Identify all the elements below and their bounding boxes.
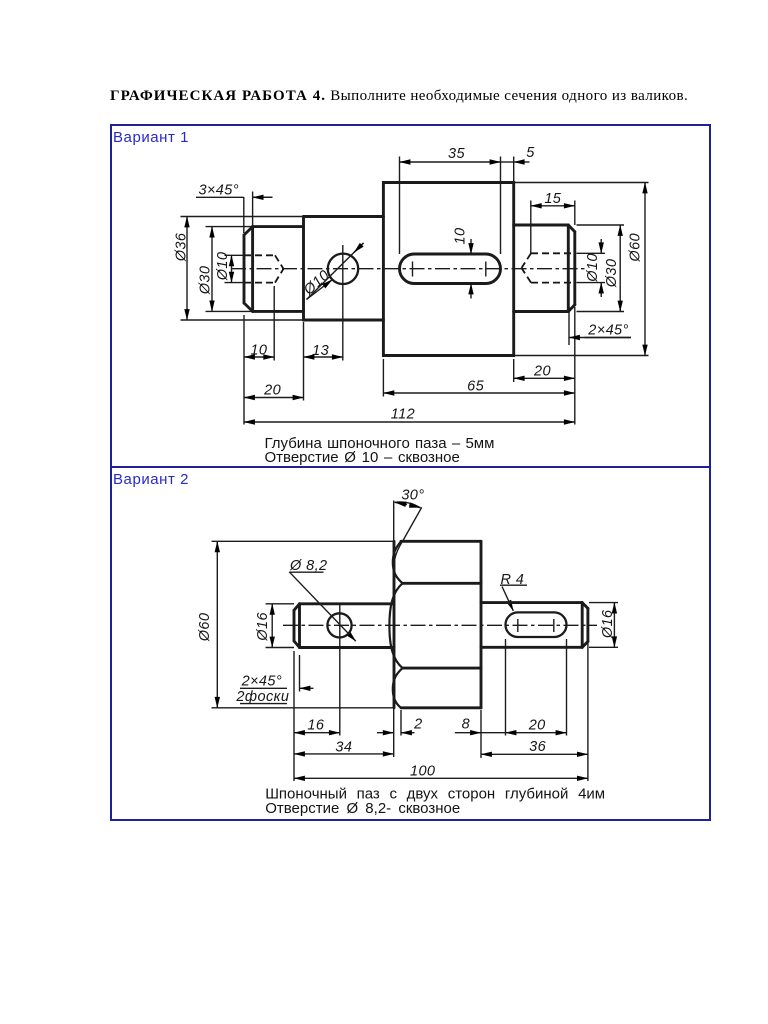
svg-text:Ø10: Ø10: [585, 253, 601, 283]
svg-text:100: 100: [410, 764, 435, 780]
left chamfers: [244, 227, 253, 312]
text 8: [462, 717, 470, 733]
chamfer edge bottom extension: [299, 655, 301, 692]
dimension line dia60: [644, 183, 646, 356]
svg-text:15: 15: [544, 191, 561, 207]
title heading: [110, 88, 688, 105]
caption line 1 V2: [265, 786, 605, 803]
caption line 1 V1: [265, 435, 495, 452]
dimension line dia10 left: [231, 255, 233, 282]
svg-text:Отверстие Ø 10 – сквозное: Отверстие Ø 10 – сквозное: [265, 449, 460, 466]
hex chamfer curves: [389, 541, 402, 708]
svg-text:36: 36: [529, 739, 546, 755]
dimension line 112: [244, 421, 575, 423]
text 65: [467, 379, 484, 395]
svg-text:30°: 30°: [401, 488, 424, 504]
dimension line dia16 left: [271, 604, 273, 648]
30 degree angle arc with arrows: [395, 502, 421, 508]
text 15: [544, 191, 561, 207]
slot left extension: [505, 639, 507, 736]
right end face extension down: [587, 643, 589, 781]
leader for cross hole dia10: [307, 243, 364, 300]
left chamfer edge line V2: [298, 604, 301, 648]
text dia10 leader rotated: [300, 267, 333, 299]
text 36: [529, 739, 546, 755]
text 100: [410, 764, 435, 780]
hidden dashed axial hole right: [522, 253, 575, 282]
svg-text:3×45°: 3×45°: [198, 182, 238, 198]
text R4: [501, 572, 525, 588]
keyway slot extension lines for dim 35: [400, 157, 501, 255]
extension lines dia10 right: [577, 253, 606, 282]
dimension line 15: [531, 205, 575, 207]
dimension line dia36: [186, 217, 188, 321]
dimension line 10: [244, 356, 274, 358]
extension for dim 5 (block right face up): [513, 157, 515, 183]
right chamfer edge line: [567, 225, 570, 312]
svg-text:16: 16: [307, 718, 324, 734]
caption line 2 V2: [265, 800, 460, 817]
leader dia8,2: [289, 572, 356, 641]
left journal dia30 top and bottom edges: [253, 227, 304, 312]
vertical line through cross hole + ext for dim 13: [342, 245, 344, 361]
svg-text:112: 112: [391, 407, 415, 423]
keyway slot V1: [400, 254, 501, 284]
extension lines dia30 right: [577, 225, 625, 312]
dimension line dia16 right: [613, 603, 615, 648]
keyway slot V2: [506, 612, 567, 637]
extension lines for dim 15 (hole depth right): [531, 201, 575, 254]
svg-text:20: 20: [263, 383, 281, 399]
vertical through hole circle + ext dim16: [339, 605, 341, 736]
dimension line 13: [304, 356, 343, 358]
label Вариант 2: [113, 471, 189, 488]
left chamfers V2: [294, 604, 300, 648]
extension lines dia16 left: [266, 604, 295, 648]
chamfer 3x45 extension lines: [244, 192, 253, 234]
bottom extension: left face: [243, 315, 245, 425]
centerline of shaft V2: [283, 624, 597, 626]
svg-text:34: 34: [335, 740, 352, 756]
extension lines dia30 left: [206, 227, 253, 312]
extension lines chamfer 2x45 right: [568, 307, 570, 346]
text dia60 left rotated: [197, 613, 213, 643]
svg-text:13: 13: [312, 343, 329, 359]
caption line 2 V1: [265, 449, 460, 466]
svg-text:2фоски: 2фоски: [235, 689, 289, 705]
svg-text:65: 65: [467, 379, 484, 395]
text 20 right: [533, 364, 551, 380]
dimension line dia30 left: [211, 227, 213, 312]
dimension line 35: [400, 161, 501, 163]
dimension line 20 left: [244, 397, 304, 399]
svg-text:R 4: R 4: [501, 572, 525, 588]
label Вариант 1: [113, 129, 189, 146]
dimension line dia30 right: [619, 225, 621, 312]
dimension line 8: [455, 732, 506, 734]
keyway width 10 arrows: [470, 239, 472, 299]
30 degree slant chamfer line: [395, 507, 422, 559]
svg-text:Ø10: Ø10: [215, 252, 231, 282]
text dia10 right rotated: [585, 253, 601, 283]
hex right face: [480, 541, 483, 708]
left journal dia16 edges: [300, 604, 395, 648]
extension lines dia36: [181, 217, 304, 321]
text 16: [307, 718, 324, 734]
text 30deg: [401, 488, 424, 504]
text 20 left: [263, 383, 281, 399]
svg-text:Ø60: Ø60: [628, 233, 644, 263]
extension lines dia60 hex: [212, 541, 396, 708]
text dia30 right rotated: [604, 259, 620, 289]
svg-text:Отверстие Ø 8,2- сквозное: Отверстие Ø 8,2- сквозное: [265, 800, 460, 817]
hex corner extension for dim 2: [400, 710, 402, 736]
text 5: [526, 145, 535, 161]
blue divider between variants: [110, 466, 711, 468]
svg-text:8: 8: [462, 717, 470, 733]
dimension line 65: [383, 392, 574, 394]
slot right extension: [566, 639, 568, 736]
hex flat edges: [403, 583, 482, 668]
hex section top and bottom edges: [401, 541, 481, 708]
hex right face extension down: [480, 710, 482, 758]
extension lines dia60: [515, 183, 649, 356]
step face dia30/dia36: [302, 217, 305, 321]
30 degree extension vertical: [393, 501, 395, 542]
shaft outline V2: left face: [293, 610, 296, 641]
text 2: [413, 717, 422, 733]
text 2x45 right: [587, 323, 628, 339]
text dia30 left rotated: [198, 266, 214, 296]
extension lines dia10 left hole: [225, 255, 245, 282]
right chamfers: [568, 225, 575, 312]
bottom extension: step dia30/dia36: [303, 322, 305, 401]
text dia16 right rotated: [600, 609, 616, 639]
text 112: [391, 407, 415, 423]
text 10 bottom: [250, 343, 267, 359]
text 3x45: [198, 182, 238, 198]
svg-text:Ø60: Ø60: [197, 613, 213, 643]
bottom extension: hole depth 10: [273, 286, 275, 361]
svg-text:35: 35: [448, 146, 465, 162]
extension lines dia16 right: [589, 603, 618, 648]
right end face V2: [586, 608, 589, 641]
text 2 faski: [235, 689, 289, 705]
leader R4: [500, 585, 527, 611]
svg-text:Ø36: Ø36: [174, 232, 190, 262]
text 35: [448, 146, 465, 162]
svg-text:20: 20: [533, 364, 551, 380]
right journal dia30 edges: [514, 225, 569, 312]
hole circle dia8,2: [327, 613, 351, 637]
text 13: [312, 343, 329, 359]
text dia10 left rotated: [215, 252, 231, 282]
dimension line dia60 hex: [216, 541, 218, 708]
text 2x45 left: [241, 673, 282, 689]
keyway slot center ticks: [413, 262, 486, 277]
dimension line 5: [501, 161, 530, 163]
text 10 keyway width rotated: [453, 228, 469, 245]
hex section left corner edge: [393, 541, 396, 708]
bottom extension: block right face: [513, 359, 515, 382]
svg-text:2×45°: 2×45°: [241, 673, 282, 689]
dimension dia10 right: outside arrows: [600, 239, 602, 297]
svg-text:Ø30: Ø30: [604, 259, 620, 289]
chamfer 2x45 leader: [569, 337, 631, 339]
dimension line 100: [294, 777, 588, 779]
left chamfer edge line: [251, 227, 254, 312]
hex left edge extensions (thin above/below): [393, 708, 395, 757]
svg-text:10: 10: [453, 228, 469, 245]
central block dia60: [383, 183, 513, 356]
keyway slot ticks V2: [518, 619, 554, 632]
svg-text:2×45°: 2×45°: [587, 323, 628, 339]
left face bottom extension: [293, 651, 295, 781]
text dia8,2: [289, 558, 327, 574]
right journal dia16 edges: [481, 603, 582, 648]
text dia36 rotated: [174, 232, 190, 262]
dimension line 36: [481, 753, 588, 755]
dimension line 20 right: [514, 377, 575, 379]
svg-text:10: 10: [250, 343, 267, 359]
dimension 3x45 leader: underline and arrow: [196, 196, 273, 198]
text 20 V2: [528, 718, 546, 734]
outer blue frame: [110, 124, 711, 821]
right chamfer edge line V2: [581, 603, 584, 648]
text dia16 left rotated: [255, 612, 271, 642]
shaft outline V1: left face: [243, 235, 246, 303]
svg-text:Ø16: Ø16: [255, 612, 271, 642]
svg-text:Ø30: Ø30: [198, 266, 214, 296]
hidden dashed axial hole left: [244, 255, 284, 282]
svg-text:20: 20: [528, 718, 546, 734]
dimension line 34: [294, 753, 394, 755]
chamfer 2x45 2 faski leader: [240, 688, 314, 703]
dimension line 20: [506, 732, 567, 734]
dimension line 2: outside arrows: [377, 732, 415, 734]
svg-text:Ø16: Ø16: [600, 609, 616, 639]
bottom extension: right end face: [574, 307, 576, 425]
centerline of shaft V1: [231, 268, 586, 270]
svg-text:Ø 8,2: Ø 8,2: [289, 558, 327, 574]
dia36 section edges: [304, 217, 384, 321]
cross hole dia10 circle: [328, 254, 358, 284]
right end face: [573, 232, 576, 305]
bottom extension: block left face: [382, 359, 384, 397]
text 34: [335, 740, 352, 756]
svg-text:2: 2: [413, 717, 422, 733]
text dia60 rotated: [628, 233, 644, 263]
svg-text:5: 5: [526, 145, 535, 161]
dimension line 16: [294, 732, 340, 734]
right chamfers V2: [582, 603, 588, 648]
